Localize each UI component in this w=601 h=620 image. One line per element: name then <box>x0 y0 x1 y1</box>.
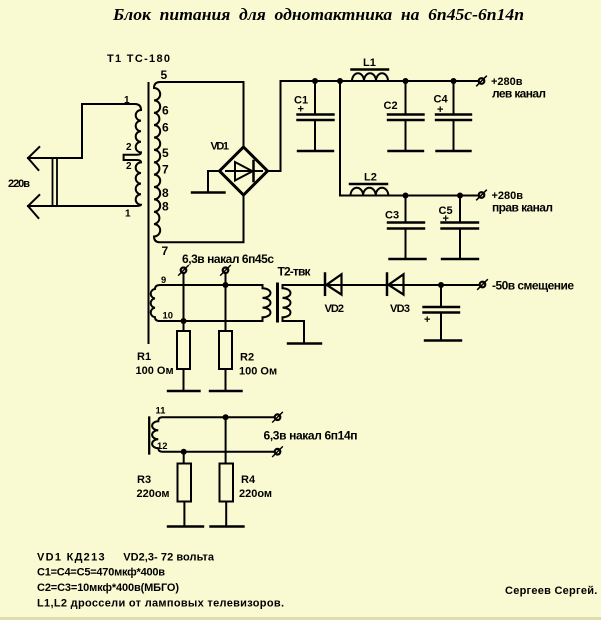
T1 primary winding 1-2 upper <box>82 104 141 206</box>
svg-text:7: 7 <box>162 244 169 258</box>
T1 secondary winding 5-7 with leads to bridge <box>154 82 244 242</box>
node C2 tap <box>403 78 409 84</box>
capacitor C2 <box>405 81 407 114</box>
svg-text:C2=C3=10мкф*400в(МБГО): C2=C3=10мкф*400в(МБГО) <box>37 582 179 594</box>
bridge VD1 diamond <box>220 147 268 195</box>
ground bar R3 <box>168 525 203 527</box>
svg-text:5: 5 <box>162 146 169 160</box>
inductor L1 <box>352 73 388 81</box>
ground bar T2 <box>288 342 321 344</box>
ground bar C1 <box>298 150 333 152</box>
inductor L2 <box>351 188 389 196</box>
svg-text:2: 2 <box>126 161 132 172</box>
ground bar bias cap <box>425 339 461 341</box>
svg-text:R3: R3 <box>137 474 151 486</box>
svg-text:VD2: VD2 <box>325 303 345 315</box>
VD1 inner diode triangle <box>235 162 253 181</box>
terminal heater 1 <box>181 268 187 274</box>
plug socket double bars <box>53 158 58 206</box>
svg-text:11: 11 <box>156 405 166 416</box>
wire VD1 plus output to rail <box>268 81 281 171</box>
wire VD1 minus to ground <box>208 171 220 193</box>
svg-text:9: 9 <box>161 274 166 285</box>
node L2 branch tap <box>337 78 343 84</box>
terminal heater 6п14п top <box>275 414 281 420</box>
diode VD2 <box>324 274 327 295</box>
VD1 inner diode wire <box>226 170 262 172</box>
resistor R1 <box>177 331 190 369</box>
wire L2 branch and right channel rail <box>340 81 478 196</box>
T2 primary winding <box>263 285 271 321</box>
ground bar R1 <box>168 390 200 392</box>
svg-text:10: 10 <box>163 309 173 320</box>
svg-text:Т1 ТС-180: Т1 ТС-180 <box>107 53 170 65</box>
diode VD3 <box>386 274 389 295</box>
ground bar C4 <box>437 150 471 152</box>
svg-text:8: 8 <box>162 186 169 200</box>
capacitor C5 <box>459 196 461 222</box>
wire +280 left channel rail <box>281 80 479 82</box>
svg-text:Сергеев Сергей.: Сергеев Сергей. <box>505 585 597 597</box>
capacitor C1 <box>314 81 316 114</box>
svg-text:R4: R4 <box>241 474 256 486</box>
T2 core <box>276 284 279 321</box>
svg-text:прав канал: прав канал <box>492 201 553 215</box>
svg-text:R1: R1 <box>137 351 151 363</box>
svg-text:8: 8 <box>162 200 169 214</box>
svg-text:5: 5 <box>161 68 168 82</box>
svg-text:2: 2 <box>126 142 132 153</box>
svg-text:6: 6 <box>162 103 169 117</box>
bias capacitor <box>440 285 442 306</box>
ground bar C5 <box>442 258 478 260</box>
node rail11 R4 <box>223 414 229 420</box>
svg-text:L1: L1 <box>363 57 376 69</box>
svg-text:VD1 КД213: VD1 КД213 <box>37 552 105 564</box>
plug lower prong wire <box>28 205 136 207</box>
svg-text:220в: 220в <box>8 178 30 190</box>
ground bar R4 <box>211 525 244 527</box>
terminal heater 2 <box>223 268 229 274</box>
node C4 tap <box>451 78 457 84</box>
T1 heater winding 11-12 with rails <box>152 417 273 452</box>
resistor R3 <box>178 464 192 502</box>
wire bias row <box>283 284 479 286</box>
resistor R2 <box>219 331 232 369</box>
wire R3 drop <box>183 452 185 464</box>
resistor R4 <box>220 464 234 502</box>
node C3 tap <box>403 193 409 199</box>
svg-text:+: + <box>443 213 449 225</box>
svg-text:VD1: VD1 <box>211 141 230 153</box>
wire T2 secondary bottom to ground <box>283 321 305 343</box>
svg-text:VD3: VD3 <box>390 303 410 315</box>
T1 heater winding 9-10 with rails <box>151 285 263 321</box>
svg-text:+: + <box>424 314 430 326</box>
plug lower arrowhead <box>28 195 39 218</box>
wire terminal1 to R1 <box>183 274 185 331</box>
svg-text:C3: C3 <box>385 210 399 222</box>
svg-text:1: 1 <box>124 95 130 106</box>
ground bar C3 <box>390 258 426 260</box>
svg-text:6,3в накал 6п45с: 6,3в накал 6п45с <box>182 252 274 266</box>
node rail10 R1 <box>181 318 187 324</box>
svg-text:VD2,3- 72 вольта: VD2,3- 72 вольта <box>123 552 215 564</box>
node bias cap tap <box>438 282 444 288</box>
ground bar C2 <box>389 150 424 152</box>
svg-text:1: 1 <box>125 209 131 220</box>
svg-text:12: 12 <box>157 440 167 451</box>
plug upper arrowhead <box>28 147 39 170</box>
plug X1 220в upper prong <box>28 104 82 158</box>
capacitor C3 <box>405 196 407 222</box>
wire R4 drop <box>225 417 227 463</box>
svg-text:L1,L2 дроссели от ламповых тел: L1,L2 дроссели от ламповых телевизоров. <box>37 598 284 610</box>
svg-text:R2: R2 <box>240 352 254 364</box>
svg-text:220ом: 220ом <box>137 488 170 500</box>
terminal +280в right <box>479 192 485 198</box>
svg-text:C1=C4=C5=470мкф*400в: C1=C4=C5=470мкф*400в <box>37 567 165 579</box>
node C1 tap <box>312 78 318 84</box>
svg-text:лев канал: лев канал <box>492 87 546 101</box>
svg-text:7: 7 <box>162 163 169 177</box>
svg-text:-50в смещение: -50в смещение <box>492 279 574 293</box>
svg-text:Блок питания для однотактника: Блок питания для однотактника на 6п45с-6… <box>112 5 524 24</box>
svg-text:L2: L2 <box>364 172 377 184</box>
svg-text:100 Ом: 100 Ом <box>136 365 174 377</box>
wire terminal2 to R2 <box>225 274 227 331</box>
node C5 tap <box>457 193 463 199</box>
node rail12 R3 <box>181 449 187 455</box>
T2 secondary winding <box>283 285 291 321</box>
terminal -50в <box>480 282 486 288</box>
svg-text:+: + <box>298 104 304 116</box>
capacitor C4 <box>453 81 455 114</box>
svg-text:Т2-твк: Т2-твк <box>278 265 312 279</box>
svg-text:+: + <box>437 104 443 116</box>
svg-text:100 Ом: 100 Ом <box>239 366 277 378</box>
terminal heater 6п14п bottom <box>275 449 281 455</box>
ground bar at VD1 <box>192 191 225 193</box>
VD1 inner diode cathode bar <box>252 161 255 181</box>
ground bar R2 <box>210 390 242 392</box>
transformer T1 core <box>148 83 150 343</box>
svg-text:6,3в накал 6п14п: 6,3в накал 6п14п <box>264 429 358 443</box>
svg-text:C2: C2 <box>384 100 398 112</box>
svg-text:6: 6 <box>162 121 169 135</box>
svg-text:220ом: 220ом <box>239 488 272 500</box>
T1 heater winding 11-12 core <box>148 418 150 454</box>
node rail9 R2 <box>223 282 229 288</box>
terminal +280в left <box>479 78 485 84</box>
